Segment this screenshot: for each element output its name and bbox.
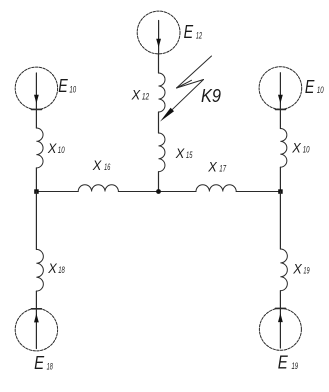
svg-text:10: 10 bbox=[69, 84, 76, 94]
node left (junction dot) bbox=[34, 189, 39, 194]
svg-text:X: X bbox=[207, 158, 217, 174]
inductor X10 left bbox=[36, 128, 43, 168]
svg-text:K9: K9 bbox=[201, 85, 221, 106]
svg-text:E: E bbox=[34, 352, 45, 373]
wire (X10 right to right node) bbox=[279, 167, 281, 191]
svg-text:X: X bbox=[131, 87, 141, 103]
svg-text:10: 10 bbox=[317, 85, 324, 95]
source E10 right (top-right generator circle with down arrow) bbox=[259, 67, 302, 110]
svg-text:12: 12 bbox=[142, 92, 149, 102]
wire (X15 to center node) bbox=[158, 172, 160, 192]
svg-text:E: E bbox=[278, 352, 289, 373]
wire (center node to X17) bbox=[159, 191, 197, 193]
source E10 left (top-left generator circle with down arrow) bbox=[15, 67, 57, 109]
svg-text:E: E bbox=[184, 21, 194, 42]
svg-text:X: X bbox=[47, 260, 57, 276]
wire (right node down to X19) bbox=[279, 192, 281, 250]
wire (X19 to E19) bbox=[279, 291, 281, 309]
svg-text:18: 18 bbox=[58, 265, 65, 275]
svg-text:12: 12 bbox=[196, 30, 202, 40]
svg-text:E: E bbox=[58, 75, 68, 96]
wire (left node to X16) bbox=[36, 191, 78, 193]
svg-text:X: X bbox=[47, 140, 57, 156]
node right (junction dot) bbox=[278, 189, 283, 194]
wire (E10 left to X10 left) bbox=[35, 109, 37, 128]
svg-text:10: 10 bbox=[303, 144, 310, 154]
svg-text:15: 15 bbox=[186, 150, 193, 160]
wire (left node down to X18) bbox=[35, 192, 37, 250]
wire (X16 to center node) bbox=[118, 191, 158, 193]
fault arrow K9 (lightning bolt) bbox=[160, 56, 212, 122]
svg-text:X: X bbox=[291, 139, 301, 155]
svg-text:17: 17 bbox=[219, 163, 226, 173]
inductor X18 bbox=[36, 249, 43, 291]
inductor X12 bbox=[159, 73, 166, 112]
inductor X15 bbox=[159, 133, 165, 172]
svg-text:E: E bbox=[305, 76, 315, 97]
wire (X12 to X15, fault point) bbox=[158, 112, 160, 133]
svg-text:19: 19 bbox=[292, 361, 299, 371]
wire (E10 right to X10 right) bbox=[279, 109, 281, 128]
wire (X18 to E18) bbox=[35, 291, 37, 309]
source E18 (bottom-left generator circle with up arrow) bbox=[15, 309, 57, 351]
node center (junction dot) bbox=[156, 189, 161, 194]
inductor X19 bbox=[280, 249, 287, 291]
wire (X10 left to left node) bbox=[35, 168, 37, 192]
inductor X10 right bbox=[280, 129, 286, 168]
svg-text:X: X bbox=[92, 157, 102, 173]
source E19 (bottom-right generator circle with up arrow) bbox=[259, 308, 301, 350]
svg-text:10: 10 bbox=[58, 145, 65, 155]
svg-text:X: X bbox=[175, 145, 185, 161]
svg-text:18: 18 bbox=[47, 361, 53, 371]
wire (X17 to right node) bbox=[236, 191, 280, 193]
wire (E12 to X12) bbox=[158, 54, 160, 73]
inductor X16 bbox=[78, 185, 118, 192]
svg-text:19: 19 bbox=[303, 266, 309, 276]
source E12 (top-center generator circle with down arrow) bbox=[137, 11, 180, 54]
inductor X17 bbox=[196, 185, 236, 192]
svg-text:16: 16 bbox=[104, 162, 110, 172]
svg-text:X: X bbox=[292, 261, 302, 277]
